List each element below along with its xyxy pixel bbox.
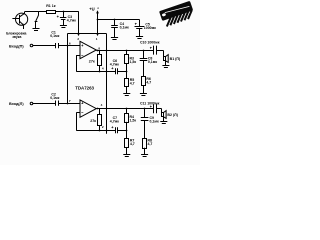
node long vertical end [106, 130, 108, 132]
wire switch to R1 [39, 11, 47, 13]
wire bias vertical [67, 33, 69, 103]
node supply rail [97, 19, 99, 21]
svg-text:4,7мк: 4,7мк [110, 120, 119, 124]
IC package photo [159, 1, 193, 27]
svg-text:8: 8 [98, 46, 100, 50]
svg-text:Вход(Л): Вход(Л) [9, 102, 24, 106]
capacitor C10 [150, 46, 164, 55]
svg-text:4: 4 [101, 103, 103, 107]
wire input2 [33, 103, 56, 105]
node feedback2 end [126, 130, 128, 132]
wire feedback2 stub [76, 112, 80, 114]
node long vertical row2 [106, 108, 108, 110]
capacitor C1 [56, 43, 59, 48]
wire bias bus [68, 33, 107, 35]
svg-text:R1 1к: R1 1к [46, 4, 56, 8]
transistor VT1 (mute) [12, 11, 27, 29]
wire supply rail [97, 19, 140, 21]
resistor R2 27k [98, 50, 102, 71]
wire feedback2 row right [117, 130, 127, 132]
svg-text:4,7мк: 4,7мк [67, 19, 76, 23]
node input1 bias [67, 45, 69, 47]
ground speaker B2 [160, 117, 167, 124]
ground speaker B1 [162, 61, 169, 68]
node long vertical row1 [106, 50, 108, 52]
node output1 [97, 50, 99, 52]
pin 4 [102, 67, 104, 71]
wire corner down to bus [78, 11, 80, 33]
svg-text:1,5к: 1,5к [130, 60, 137, 64]
speaker B1 [164, 51, 169, 63]
wire feedback1 row right [117, 71, 127, 73]
svg-text:TDA7263: TDA7263 [75, 85, 94, 90]
svg-text:7: 7 [69, 99, 71, 103]
wire input1 [33, 45, 56, 47]
input terminal X2 [9, 102, 24, 106]
capacitor C6 [111, 67, 117, 74]
wire output row 1 [96, 50, 153, 52]
wire C2 to op-amp [58, 103, 80, 105]
svg-text:4,7: 4,7 [130, 82, 135, 86]
IC label TDA7263 [75, 85, 94, 90]
op-amp A2 [80, 100, 96, 117]
pin 4 [101, 103, 103, 107]
ground under C4 [111, 38, 118, 40]
svg-text:0,1мк: 0,1мк [50, 34, 59, 38]
capacitor C4 [111, 20, 118, 38]
label mute text [6, 31, 26, 39]
wire long vertical [106, 33, 108, 130]
node C3 junction [63, 11, 65, 13]
pin arrow 1 [96, 34, 98, 36]
wire C1 to op-amp [58, 45, 80, 47]
svg-text:n: n [98, 7, 100, 10]
capacitor C9 zobel2 [141, 109, 149, 139]
svg-text:1: 1 [96, 37, 98, 41]
svg-text:1000мк: 1000мк [144, 26, 156, 30]
wire feedback2 row [76, 130, 115, 132]
capacitor C11 [150, 104, 162, 113]
node long vertical feedback row1 [106, 71, 108, 73]
pin 7 [69, 99, 71, 103]
pin 6 [69, 42, 71, 46]
resistor R7 4.7 [125, 130, 129, 155]
node zobel1 row1 [143, 50, 145, 52]
wire feedback1 stub [76, 55, 80, 57]
pin arrow 2 [77, 34, 79, 36]
svg-text:0,1мк: 0,1мк [150, 120, 159, 124]
node 27k bottom [99, 71, 101, 73]
ground R5 [123, 94, 130, 96]
resistor R6 4.7 zobel1 [142, 77, 146, 94]
wire feedback1 row [76, 71, 115, 73]
ground under C5 [136, 37, 143, 39]
pin 2b [102, 125, 104, 129]
input terminal X1 [9, 44, 24, 48]
speaker B2 [162, 109, 167, 119]
svg-text:6: 6 [69, 42, 71, 46]
capacitor C5 [135, 20, 145, 37]
svg-text:27к: 27к [89, 60, 95, 64]
node feedback1 end [126, 71, 128, 73]
node 27k2 bottom [99, 130, 101, 132]
node zobel2 row2 [144, 108, 146, 110]
node input2 bias [67, 103, 69, 105]
node R3 column row1 [126, 50, 128, 52]
resistor R3 1.5k [125, 50, 129, 71]
svg-text:В2 (Л): В2 (Л) [167, 113, 178, 117]
ground under switch [33, 29, 40, 31]
svg-text:+U: +U [89, 7, 94, 12]
resistor R8 4.7 zobel2 [143, 139, 147, 155]
svg-text:27к: 27к [90, 119, 96, 123]
capacitor C7 [111, 126, 117, 133]
wire output row 2 [96, 108, 153, 110]
ground R7 [123, 155, 130, 157]
capacitor C8 zobel1 [140, 50, 148, 77]
resistor R4 27k [98, 109, 102, 131]
svg-text:4,7: 4,7 [148, 142, 153, 146]
svg-text:звука: звука [12, 35, 21, 39]
svg-text:0,1мк: 0,1мк [50, 96, 59, 100]
svg-text:4,7мк: 4,7мк [110, 63, 119, 67]
node bus R1 drop [78, 33, 80, 35]
capacitor C3 [57, 11, 67, 25]
svg-text:4,7: 4,7 [146, 80, 151, 84]
pin 8 [98, 46, 100, 50]
capacitor C2 [56, 101, 59, 106]
wire collector to switch [25, 11, 39, 13]
svg-text:В1 (П): В1 (П) [170, 57, 181, 61]
resistor R5 4.7 [125, 71, 129, 93]
node R4 column row2 [126, 108, 128, 110]
svg-text:С10 1000мк: С10 1000мк [140, 40, 160, 44]
svg-text:4,7: 4,7 [130, 142, 135, 146]
svg-text:С11 1000мк: С11 1000мк [140, 101, 160, 105]
node C4 [114, 19, 116, 21]
ground R8 [141, 155, 148, 157]
ground under C3 [60, 26, 67, 28]
svg-text:1,5к: 1,5к [130, 118, 137, 122]
supply terminal +U [89, 7, 99, 34]
svg-text:0,1мк: 0,1мк [148, 60, 157, 64]
svg-text:2: 2 [102, 125, 104, 129]
op-amp A1 [80, 41, 96, 58]
ground R6 [140, 94, 147, 96]
resistor R4b 1.5k [125, 109, 129, 131]
wire R1 to corner [55, 11, 78, 13]
switch SA1 [35, 11, 39, 28]
svg-text:Вход(П): Вход(П) [9, 44, 24, 48]
svg-text:4: 4 [102, 67, 104, 71]
svg-text:0,1мк: 0,1мк [120, 26, 129, 30]
svg-text:2: 2 [77, 37, 79, 41]
resistor R1 [47, 11, 56, 14]
node output2 [97, 108, 99, 110]
